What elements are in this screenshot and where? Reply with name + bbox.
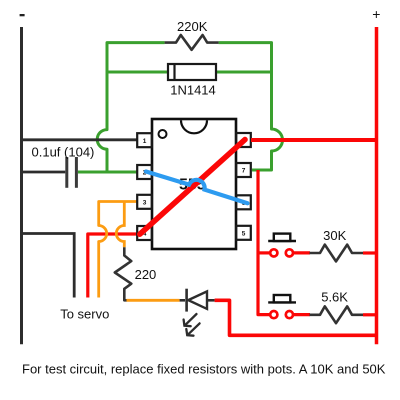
LED light arrow 2 xyxy=(188,323,200,335)
svg-text:5.6K: 5.6K xyxy=(321,290,348,305)
pushbutton SW2 xyxy=(268,295,310,318)
LED anode lead xyxy=(180,299,185,302)
IC pin 1 indicator circle xyxy=(159,130,167,138)
svg-text:+: + xyxy=(372,6,380,22)
LED light arrow 1 xyxy=(184,314,200,336)
IC U1 555 body xyxy=(152,119,236,249)
wire orange branch to 220 resistor with hop over red xyxy=(116,202,124,248)
wire orange pin 3 to servo with hop over red xyxy=(99,202,139,298)
wire green capacitor to pin 2 xyxy=(78,171,139,174)
rail minus (left) xyxy=(20,27,23,344)
capacitor C1 plates xyxy=(67,157,77,188)
resistor R5 5.6K xyxy=(310,306,364,323)
wire red 30K to rail xyxy=(363,251,377,254)
SW1 terminals xyxy=(270,249,277,256)
wire blue pin2-pin6 with hop xyxy=(146,172,248,204)
SW1 cap xyxy=(268,240,296,242)
pin 3 xyxy=(137,195,152,209)
pin 2 xyxy=(137,165,152,179)
wire green top-left: top rail to left vertical with hop over pin1 wire xyxy=(97,43,164,172)
LED cathode bar xyxy=(185,289,188,312)
wire green top horizontal right segment xyxy=(219,43,283,170)
svg-text:220: 220 xyxy=(135,267,157,282)
svg-text:30K: 30K xyxy=(323,228,346,243)
svg-text:220K: 220K xyxy=(177,19,208,34)
wire green diode row right xyxy=(216,71,272,74)
wire black to pin 1 xyxy=(20,138,139,141)
svg-text:To servo: To servo xyxy=(60,307,109,322)
SW2 cap xyxy=(268,301,296,303)
wire red drop from pin7 node to buttons xyxy=(258,170,270,315)
resistor R1 220K xyxy=(165,35,219,50)
svg-text:3: 3 xyxy=(143,200,147,207)
svg-text:1: 1 xyxy=(143,138,147,145)
svg-text:7: 7 xyxy=(242,168,246,175)
svg-text:0.1uf (104): 0.1uf (104) xyxy=(32,145,95,160)
wire red 5.6K to rail xyxy=(363,313,377,316)
wire red pin 8 to + rail xyxy=(251,138,377,142)
diode D1 1N1414 xyxy=(168,64,216,80)
wire red servo line to pin 4 xyxy=(88,234,139,298)
pin 1 xyxy=(137,133,152,147)
pin 6 xyxy=(236,195,251,209)
wire red button2 to 5.6K xyxy=(294,313,311,316)
resistor R4 30K xyxy=(310,245,364,262)
wire black capacitor left lead xyxy=(20,171,65,174)
svg-text:5: 5 xyxy=(242,231,246,238)
svg-text:For test circuit, replace fixe: For test circuit, replace fixed resistor… xyxy=(22,362,386,377)
wire red LED to bottom rail xyxy=(215,300,377,335)
LED right lead xyxy=(207,299,215,302)
rail plus (right) xyxy=(375,27,379,344)
IC notch xyxy=(181,120,207,133)
wire black ground L to servo xyxy=(20,234,74,298)
SW2 terminals xyxy=(270,311,277,318)
pin 5 xyxy=(236,226,251,240)
pushbutton SW1 xyxy=(268,234,310,257)
wire green net: 220K/diode loop down to pin 2 and pin 7 xyxy=(78,43,283,172)
wire orange to LED xyxy=(127,299,180,302)
LED triangle xyxy=(188,291,207,309)
label minus xyxy=(20,14,25,16)
LED D2 xyxy=(180,289,215,312)
pin 4 xyxy=(137,226,152,240)
wire red tee to button 1 xyxy=(258,251,270,254)
wire red thick diagonal pin4-pin8 xyxy=(140,140,245,235)
wire red button1 to 30K xyxy=(294,251,311,254)
pin 8 xyxy=(236,133,251,147)
svg-text:1N1414: 1N1414 xyxy=(170,83,216,98)
wire green diode row left xyxy=(107,71,168,74)
pin 7 xyxy=(236,163,251,177)
resistor R3 220 vertical xyxy=(115,247,132,300)
